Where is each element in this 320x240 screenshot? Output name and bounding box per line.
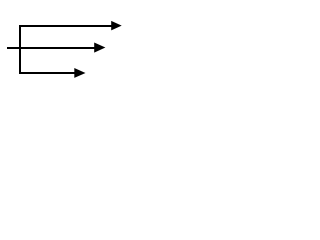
background <box>0 0 132 102</box>
wire: vertical branch line <box>19 25 21 74</box>
node: bottom arrowhead <box>74 68 85 78</box>
node: top arrowhead <box>111 21 122 31</box>
wire: middle arrow shaft <box>7 47 96 49</box>
node: middle arrowhead <box>94 43 105 53</box>
wire: top arrow shaft <box>19 25 112 27</box>
wire: bottom arrow shaft <box>19 72 76 74</box>
